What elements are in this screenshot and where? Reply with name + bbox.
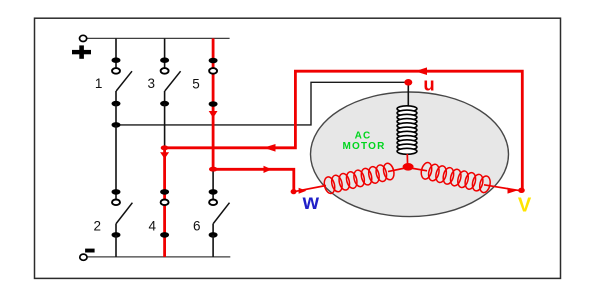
top bus wire (+) (87, 37, 230, 39)
node w dot (291, 189, 297, 194)
svg-text:V: V (518, 194, 532, 216)
leg 2 upper wire (164, 38, 166, 68)
wire from node u down to winding U (407, 82, 409, 110)
label 1 (95, 76, 103, 91)
middle bus wire from leg1 midpoint to node u (116, 82, 408, 125)
current arrow down on leg 2 (160, 152, 169, 159)
current arrow right at node V (508, 188, 517, 194)
current arrow left on top return wire (415, 67, 427, 75)
leg 1 wire S2 to bottom bus (115, 235, 117, 257)
switch S2 (open) (112, 189, 133, 238)
motor M1 body (311, 92, 509, 217)
wire from w node to winding W (294, 186, 326, 192)
winding U (black coil) (397, 106, 417, 155)
wire from winding V to node V (484, 185, 521, 191)
svg-text:AC: AC (355, 131, 372, 142)
node label u (423, 73, 434, 94)
svg-text:6: 6 (193, 218, 201, 233)
current arrow right on w tap wire (264, 166, 272, 173)
leg 2 wire S3 down to red junction (164, 104, 166, 148)
label 2 (93, 218, 101, 233)
label 3 (147, 76, 155, 91)
leg 2 red wire through S4 to bottom bus (163, 148, 166, 257)
red return wire from V up over to leg2 junction (165, 71, 523, 191)
bottom bus wire (-) (87, 256, 231, 258)
leg 3 wire S6 to bottom bus (212, 235, 214, 257)
current arrow left on middle return wire (264, 144, 276, 152)
switch S6 (open) (209, 189, 230, 238)
current arrow right at node w (299, 188, 307, 194)
leg 1 upper wire (115, 38, 117, 68)
current arrow down on leg 3 (209, 111, 218, 118)
wire winding W to center node (388, 168, 408, 172)
winding W (red coil, left) (323, 162, 396, 194)
node V dot (518, 188, 525, 193)
svg-text:4: 4 (149, 218, 157, 233)
svg-text:MOTOR: MOTOR (342, 141, 385, 152)
leg 3 red feed wire from + bus through S5 to w tap (212, 38, 215, 169)
node u dot (404, 79, 412, 86)
svg-text:u: u (423, 73, 434, 94)
switch S1 (open) (112, 57, 133, 106)
svg-text:3: 3 (147, 76, 155, 91)
DC+ terminal (80, 35, 87, 41)
junction dot leg2 tap (161, 145, 169, 150)
switch S4 (closed) (160, 189, 169, 238)
node label V (518, 194, 532, 216)
DC- terminal (80, 254, 87, 260)
svg-text:5: 5 (192, 76, 200, 91)
label 4 (149, 218, 157, 233)
leg 3 wire junction to S6 (212, 172, 214, 200)
wire winding U to center node (406, 154, 408, 166)
node label w (302, 191, 320, 214)
svg-text:2: 2 (93, 218, 101, 233)
switch S5 (closed) (209, 58, 218, 107)
minus symbol (85, 249, 95, 253)
motor label AC MOTOR (342, 131, 385, 153)
label 6 (193, 218, 201, 233)
label 5 (192, 76, 200, 91)
switch S3 (open) (160, 57, 181, 106)
svg-text:1: 1 (95, 76, 103, 91)
junction dot leg1 midpoint (112, 122, 121, 128)
junction dot leg3 tap (209, 167, 217, 172)
leg 1 wire between S1 and middle bus (115, 104, 117, 125)
wire center node to winding V (408, 168, 427, 171)
leg 1 wire between middle bus and S2 (115, 125, 117, 200)
winding V (red coil, right) (420, 161, 492, 193)
red wire tap to w (horizontal) (213, 169, 294, 191)
center node dot (star point) (403, 163, 414, 171)
plus symbol (72, 45, 91, 58)
svg-text:w: w (302, 191, 320, 214)
